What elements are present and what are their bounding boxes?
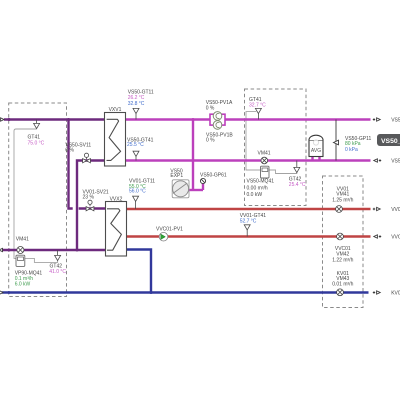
svg-text:1.25 m³/h: 1.25 m³/h bbox=[332, 197, 353, 203]
svg-text:VVX2: VVX2 bbox=[110, 196, 123, 202]
svg-text:52.7 °C: 52.7 °C bbox=[240, 218, 257, 224]
svg-text:75.0 °C: 75.0 °C bbox=[28, 141, 45, 147]
svg-text:41.0 °C: 41.0 °C bbox=[49, 269, 66, 275]
svg-text:32.8 °C: 32.8 °C bbox=[128, 101, 145, 107]
svg-text:VS50-MQ41: VS50-MQ41 bbox=[247, 179, 275, 185]
svg-text:EXP1: EXP1 bbox=[170, 173, 183, 179]
svg-text:VS50-GP61: VS50-GP61 bbox=[200, 173, 227, 179]
svg-text:VM41: VM41 bbox=[16, 237, 29, 243]
svg-text:KV01: KV01 bbox=[391, 291, 400, 297]
svg-text:32.7 °C: 32.7 °C bbox=[249, 103, 266, 109]
svg-text:25.5 °C: 25.5 °C bbox=[127, 142, 144, 148]
svg-text:6.0 kW: 6.0 kW bbox=[15, 282, 31, 288]
svg-text:56.0 °C: 56.0 °C bbox=[129, 189, 146, 195]
svg-text:VVC01: VVC01 bbox=[391, 235, 400, 241]
svg-text:0 %: 0 % bbox=[206, 138, 215, 144]
svg-text:AVG: AVG bbox=[311, 148, 321, 154]
svg-text:VM41: VM41 bbox=[258, 151, 271, 157]
svg-text:VVC01-PV1: VVC01-PV1 bbox=[156, 227, 183, 233]
svg-text:0.00 m³/h: 0.00 m³/h bbox=[247, 185, 268, 191]
svg-text:23 %: 23 % bbox=[83, 195, 95, 201]
svg-text:1.22 m³/h: 1.22 m³/h bbox=[332, 257, 353, 263]
svg-text:VS50-GT11: VS50-GT11 bbox=[391, 118, 400, 124]
svg-text:0.01 m³/h: 0.01 m³/h bbox=[332, 281, 353, 287]
svg-text:25.4 °C: 25.4 °C bbox=[289, 182, 306, 188]
svg-text:0 kPa: 0 kPa bbox=[345, 147, 358, 153]
svg-text:VXV1: VXV1 bbox=[109, 107, 122, 113]
svg-text:VS50-GT41: VS50-GT41 bbox=[391, 159, 400, 165]
svg-text:VV01-GT41: VV01-GT41 bbox=[391, 207, 400, 213]
svg-text:GT41: GT41 bbox=[28, 134, 41, 140]
svg-text:VS50_: VS50_ bbox=[381, 138, 400, 145]
svg-text:0 %: 0 % bbox=[206, 105, 215, 111]
svg-text:0 %: 0 % bbox=[65, 147, 74, 153]
svg-text:0.0 kW: 0.0 kW bbox=[247, 192, 263, 198]
